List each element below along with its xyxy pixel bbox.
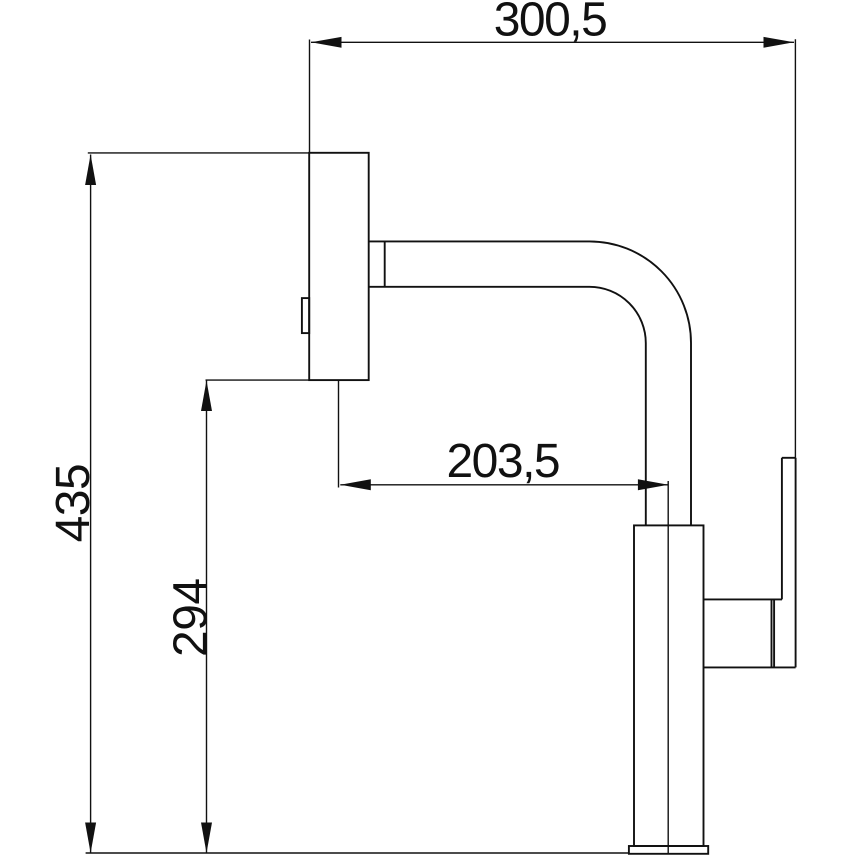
svg-text:435: 435 <box>47 464 100 543</box>
svg-text:300,5: 300,5 <box>494 0 607 47</box>
svg-text:203,5: 203,5 <box>446 435 559 488</box>
svg-text:294: 294 <box>165 578 218 657</box>
